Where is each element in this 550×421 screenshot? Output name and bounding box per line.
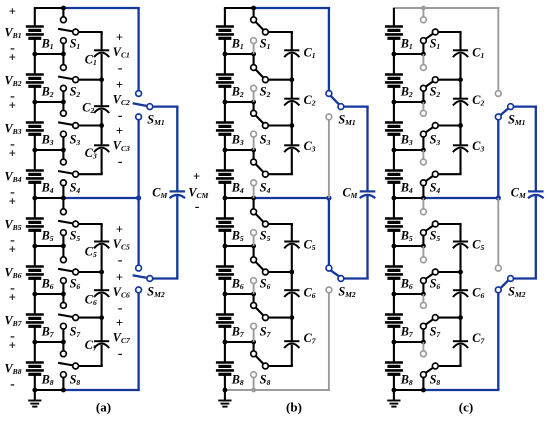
svg-text:B2: B2 <box>41 85 54 100</box>
svg-text:CM: CM <box>511 186 526 201</box>
junction at C junction 7 (c) <box>458 315 463 320</box>
switch S6 (a) <box>58 246 80 294</box>
svg-text:C1: C1 <box>304 46 316 61</box>
wire: top rail (c) <box>393 6 500 11</box>
svg-text:+: + <box>116 78 123 92</box>
wire: S7 pole to capacitor column (c) <box>438 317 462 319</box>
switch S2 (c) <box>421 54 441 102</box>
svg-text:S3: S3 <box>430 133 441 148</box>
battery B2 (c) <box>385 54 413 102</box>
battery B2 (a) <box>26 54 54 102</box>
svg-text:CM: CM <box>152 186 167 201</box>
switch S5 (c) <box>421 198 441 246</box>
svg-text:S5: S5 <box>70 229 81 244</box>
svg-text:B4: B4 <box>400 181 413 196</box>
node 2 wire (b) <box>223 100 257 105</box>
svg-text:+: + <box>9 4 16 18</box>
wire: S6 pole to capacitor column (b) <box>268 271 293 273</box>
junction at C junction 6 (b) <box>289 270 294 275</box>
wire: S_M2 pole to C_M (b) <box>343 196 368 279</box>
battery B8 (c) <box>385 342 413 390</box>
svg-text:C6: C6 <box>304 286 316 301</box>
battery B7 (c) <box>385 294 414 342</box>
svg-text:C3: C3 <box>85 146 97 161</box>
svg-text:S8: S8 <box>430 373 441 388</box>
svg-text:C2: C2 <box>82 101 94 116</box>
wire: S3 pole to capacitor column (c) <box>438 124 462 126</box>
svg-text:SM2: SM2 <box>147 285 165 300</box>
wire: mid node rail (a) <box>35 195 141 200</box>
label V_C3 with polarity (a) <box>113 124 130 170</box>
wire: S_M2 pole to C_M (a) <box>152 196 178 279</box>
node 7 wire (a) <box>32 340 65 345</box>
ground (b) <box>218 390 231 407</box>
switch S_M2 (c) <box>495 198 525 390</box>
label V_B7 with polarity (a) <box>5 290 23 344</box>
ground (c) <box>387 390 400 407</box>
svg-text:+: + <box>9 146 16 160</box>
wire: S8 pole to capacitor column (b) <box>268 365 293 367</box>
node 3 wire (b) <box>223 148 257 153</box>
switch S1 (c) <box>421 8 441 54</box>
node 1 wire (b) <box>223 52 257 57</box>
svg-text:(a): (a) <box>96 400 111 415</box>
node 6 wire (b) <box>223 292 257 297</box>
junction at C junction 2 (b) <box>289 77 294 82</box>
switch S2 (a) <box>58 54 80 102</box>
node 5 wire (c) <box>392 244 426 249</box>
svg-text:SM1: SM1 <box>338 113 356 128</box>
battery B6 (a) <box>26 246 54 294</box>
node 4 wire (b) <box>223 196 228 201</box>
capacitor C_M (c) <box>511 186 544 201</box>
svg-text:S6: S6 <box>260 277 271 292</box>
svg-text:C2: C2 <box>472 93 484 108</box>
wire: S4 pole to capacitor column (c) <box>438 173 462 175</box>
svg-text:+: + <box>116 316 123 330</box>
wire: bottom rail (c) <box>393 388 500 393</box>
svg-text:C2: C2 <box>304 93 316 108</box>
wire: capacitor column corners (b) <box>291 32 293 366</box>
switch S3 (b) <box>251 102 271 150</box>
junction at C junction 7 (a) <box>99 315 104 320</box>
switch S5 (a) <box>58 198 80 246</box>
battery B4 (c) <box>385 150 413 198</box>
svg-text:S2: S2 <box>70 85 81 100</box>
wire: top rail (a) <box>34 6 140 11</box>
wire: S1 pole to capacitor column (b) <box>268 31 293 33</box>
svg-text:C7: C7 <box>304 331 317 346</box>
label V_B5 with polarity (a) <box>5 194 22 248</box>
wire: S6 pole to capacitor column (c) <box>438 271 462 273</box>
wire: capacitor column corners (a) <box>101 32 103 366</box>
svg-text:S8: S8 <box>70 373 81 388</box>
switch S_M2 (a) <box>133 198 165 390</box>
switch S1 (b) <box>251 8 271 54</box>
svg-text:-: - <box>10 377 15 392</box>
switch S6 (b) <box>251 246 271 294</box>
svg-text:+: + <box>9 194 16 208</box>
svg-text:B3: B3 <box>41 133 54 148</box>
node 7 wire (b) <box>223 340 257 345</box>
svg-text:-: - <box>118 61 123 76</box>
wire: mid node rail (c) <box>394 195 501 200</box>
battery B1 (b) <box>216 8 244 54</box>
battery B5 (a) <box>26 198 54 246</box>
switch S_M1 (a) <box>133 8 165 198</box>
switch S8 (a) <box>58 342 80 390</box>
battery B3 (a) <box>26 102 54 150</box>
svg-text:B1: B1 <box>41 37 54 52</box>
svg-text:B6: B6 <box>41 277 54 292</box>
svg-text:+: + <box>9 242 16 256</box>
junction at C junction 2 (a) <box>99 77 104 82</box>
battery B6 (b) <box>216 246 244 294</box>
capacitor C1 (c) <box>453 32 485 80</box>
node 3 wire (c) <box>392 148 426 153</box>
svg-text:S1: S1 <box>70 37 81 52</box>
battery B7 (b) <box>216 294 245 342</box>
node 5 wire (b) <box>223 244 257 249</box>
battery B2 (b) <box>216 54 244 102</box>
switch S8 (c) <box>421 342 441 390</box>
junction at C junction 6 (c) <box>458 270 463 275</box>
switch S4 (b) <box>251 150 271 198</box>
svg-text:C5: C5 <box>472 238 484 253</box>
svg-text:S1: S1 <box>430 37 441 52</box>
label V_C7 with polarity (a) <box>113 316 131 362</box>
svg-text:B5: B5 <box>400 229 413 244</box>
capacitor C2 (c) <box>453 80 485 126</box>
switch S7 (a) <box>58 294 81 342</box>
capacitor C5 (b) <box>284 224 316 272</box>
label V_C5 with polarity (a) <box>113 222 130 268</box>
svg-text:SM1: SM1 <box>147 113 165 128</box>
switch S7 (c) <box>421 294 442 342</box>
switch S1 (a) <box>58 8 80 54</box>
svg-text:B7: B7 <box>400 325 414 340</box>
label V_B2 with polarity (a) <box>5 50 22 104</box>
svg-text:B8: B8 <box>400 373 413 388</box>
wire: S_M2 pole to C_M (c) <box>513 196 537 279</box>
wire: bottom rail (a) <box>34 388 140 393</box>
node 4 wire (c) <box>392 196 397 201</box>
svg-text:S3: S3 <box>260 133 271 148</box>
svg-text:VB1: VB1 <box>5 26 22 41</box>
label V_B1 with polarity (a) <box>5 4 22 56</box>
svg-text:S8: S8 <box>260 373 271 388</box>
battery B4 (a) <box>26 150 54 198</box>
capacitor C7 (a) <box>85 318 109 366</box>
svg-text:S5: S5 <box>260 229 271 244</box>
switch S4 (c) <box>421 150 441 198</box>
node 3 wire (a) <box>32 148 65 153</box>
wire: S7 pole to capacitor column (a) <box>78 317 103 319</box>
wire: S7 pole to capacitor column (b) <box>268 317 293 319</box>
label V_CM with polarity (a) <box>188 170 208 215</box>
svg-text:S4: S4 <box>430 181 441 196</box>
battery B3 (c) <box>385 102 413 150</box>
svg-text:C1: C1 <box>472 46 484 61</box>
wire: top rail (b) <box>224 6 330 11</box>
svg-text:+: + <box>9 98 16 112</box>
svg-text:C3: C3 <box>472 139 484 154</box>
switch S4 (a) <box>58 150 80 198</box>
svg-text:+: + <box>116 270 123 284</box>
node 1 wire (c) <box>392 52 426 57</box>
svg-text:S6: S6 <box>70 277 81 292</box>
svg-text:SM2: SM2 <box>338 285 356 300</box>
capacitor C_M (b) <box>343 186 376 201</box>
svg-text:-: - <box>118 109 123 124</box>
capacitor C3 (c) <box>453 126 485 175</box>
wire: S5 pole to capacitor column (b) <box>268 223 293 225</box>
svg-text:+: + <box>116 222 123 236</box>
svg-text:B3: B3 <box>400 133 413 148</box>
node 1 wire (a) <box>32 52 65 57</box>
capacitor C6 (b) <box>284 272 316 318</box>
wire: mid node rail (b) <box>225 195 332 200</box>
label V_B3 with polarity (a) <box>5 98 22 152</box>
svg-text:S3: S3 <box>70 133 81 148</box>
wire: S1 pole to capacitor column (a) <box>78 31 103 33</box>
svg-text:C3: C3 <box>304 139 316 154</box>
node 6 wire (c) <box>392 292 426 297</box>
svg-text:B5: B5 <box>41 229 54 244</box>
bottom node dot (c) <box>392 388 397 393</box>
wire: S2 pole to capacitor column (c) <box>438 79 462 81</box>
capacitor C2 (a) <box>82 80 109 126</box>
svg-text:VB7: VB7 <box>5 314 23 329</box>
svg-text:-: - <box>118 347 123 362</box>
svg-text:B6: B6 <box>231 277 244 292</box>
svg-text:S7: S7 <box>430 325 442 340</box>
svg-text:VB8: VB8 <box>5 362 22 377</box>
svg-text:B7: B7 <box>41 325 55 340</box>
svg-text:S5: S5 <box>430 229 441 244</box>
svg-text:C5: C5 <box>304 238 316 253</box>
capacitor C3 (b) <box>284 126 316 175</box>
switch S8 (b) <box>251 342 271 390</box>
wire: S6 pole to capacitor column (a) <box>78 271 103 273</box>
capacitor C_M (a) <box>152 186 185 201</box>
capacitor C5 (a) <box>85 224 109 272</box>
capacitor C7 (b) <box>284 318 317 366</box>
svg-text:+: + <box>9 338 16 352</box>
wire: S3 pole to capacitor column (b) <box>268 124 293 126</box>
switch S3 (a) <box>58 102 80 150</box>
node 7 wire (c) <box>392 340 426 345</box>
svg-text:VC6: VC6 <box>113 285 130 300</box>
svg-text:VC7: VC7 <box>113 331 131 346</box>
label V_B6 with polarity (a) <box>5 242 22 295</box>
svg-text:CM: CM <box>343 186 358 201</box>
svg-text:+: + <box>193 170 200 184</box>
wire: S4 pole to capacitor column (b) <box>268 173 293 175</box>
junction at C junction 7 (b) <box>289 315 294 320</box>
junction at C junction 2 (c) <box>458 77 463 82</box>
bottom node dot (b) <box>223 388 228 393</box>
capacitor C6 (c) <box>453 272 485 318</box>
svg-text:VC1: VC1 <box>113 45 130 60</box>
svg-text:B5: B5 <box>231 229 244 244</box>
svg-text:S7: S7 <box>70 325 82 340</box>
battery B8 (b) <box>216 342 244 390</box>
node 6 wire (a) <box>32 292 65 297</box>
switch S6 (c) <box>421 246 441 294</box>
svg-text:S7: S7 <box>260 325 272 340</box>
svg-text:VB5: VB5 <box>5 218 22 233</box>
switch S2 (b) <box>251 54 271 102</box>
label V_C1 with polarity (a) <box>113 30 130 76</box>
svg-text:S4: S4 <box>260 181 271 196</box>
wire: S4 pole to capacitor column (a) <box>78 173 103 175</box>
wire: S2 pole to capacitor column (a) <box>78 79 103 81</box>
switch S7 (b) <box>251 294 272 342</box>
svg-text:S1: S1 <box>260 37 271 52</box>
svg-text:VB3: VB3 <box>5 122 22 137</box>
svg-text:(c): (c) <box>459 400 473 415</box>
svg-text:VB6: VB6 <box>5 266 22 281</box>
svg-text:B4: B4 <box>41 181 54 196</box>
svg-text:+: + <box>116 30 123 44</box>
switch S3 (c) <box>421 102 441 150</box>
node 2 wire (c) <box>392 100 426 105</box>
junction at C junction 3 (b) <box>289 123 294 128</box>
svg-text:B2: B2 <box>400 85 413 100</box>
junction at C junction 3 (c) <box>458 123 463 128</box>
svg-text:B7: B7 <box>231 325 245 340</box>
node 4 wire (a) <box>32 196 37 201</box>
wire: bottom rail (b) <box>224 388 330 393</box>
battery B5 (b) <box>216 198 244 246</box>
svg-text:+: + <box>116 124 123 138</box>
capacitor C1 (a) <box>85 32 109 80</box>
label V_B4 with polarity (a) <box>5 146 22 200</box>
wire: S_M1 pole to C_M (a) <box>152 107 178 192</box>
svg-text:+: + <box>9 290 16 304</box>
ground (a) <box>28 390 41 407</box>
wire: S_M1 pole to C_M (c) <box>513 107 537 192</box>
capacitor C1 (b) <box>284 32 316 80</box>
svg-text:S2: S2 <box>260 85 271 100</box>
capacitor C3 (a) <box>85 126 109 175</box>
svg-text:SM1: SM1 <box>508 113 526 128</box>
battery B3 (b) <box>216 102 244 150</box>
wire: capacitor column corners (c) <box>459 32 461 366</box>
wire: S8 pole to capacitor column (a) <box>78 365 103 367</box>
battery B6 (c) <box>385 246 413 294</box>
capacitor C6 (a) <box>85 272 109 318</box>
svg-text:C7: C7 <box>472 331 485 346</box>
switch S_M2 (b) <box>326 198 356 390</box>
wire: S3 pole to capacitor column (a) <box>78 124 103 126</box>
node 5 wire (a) <box>32 244 65 249</box>
label V_C2 with polarity (a) <box>113 78 130 124</box>
svg-text:B8: B8 <box>41 373 54 388</box>
wire: S5 pole to capacitor column (c) <box>438 223 462 225</box>
svg-text:S6: S6 <box>430 277 441 292</box>
battery B7 (a) <box>26 294 55 342</box>
svg-text:VC5: VC5 <box>113 237 130 252</box>
svg-text:B2: B2 <box>231 85 244 100</box>
wire: S5 pole to capacitor column (a) <box>78 223 103 225</box>
svg-text:B4: B4 <box>231 181 244 196</box>
capacitor C7 (c) <box>453 318 486 366</box>
svg-text:B6: B6 <box>400 277 413 292</box>
svg-text:-: - <box>118 301 123 316</box>
svg-text:C6: C6 <box>472 286 484 301</box>
wire: S1 pole to capacitor column (c) <box>438 31 462 33</box>
switch S_M1 (b) <box>326 8 356 198</box>
svg-text:B1: B1 <box>231 37 244 52</box>
svg-text:VCM: VCM <box>188 186 208 201</box>
label V_C6 with polarity (a) <box>113 270 130 316</box>
svg-text:S2: S2 <box>430 85 441 100</box>
svg-text:SM2: SM2 <box>508 285 526 300</box>
svg-text:VB4: VB4 <box>5 170 22 185</box>
junction at C junction 6 (a) <box>99 270 104 275</box>
svg-text:B8: B8 <box>231 373 244 388</box>
capacitor C5 (c) <box>453 224 485 272</box>
svg-text:VB2: VB2 <box>5 74 22 89</box>
switch S5 (b) <box>251 198 271 246</box>
wire: S2 pole to capacitor column (b) <box>268 79 293 81</box>
switch S_M1 (c) <box>495 8 525 198</box>
svg-text:VC2: VC2 <box>113 93 130 108</box>
svg-text:S4: S4 <box>70 181 81 196</box>
bottom node dot (a) <box>32 388 37 393</box>
svg-text:-: - <box>118 253 123 268</box>
node 2 wire (a) <box>32 100 65 105</box>
battery B1 (a) <box>26 8 54 54</box>
svg-text:B3: B3 <box>231 133 244 148</box>
battery B8 (a) <box>26 342 54 390</box>
svg-text:VC3: VC3 <box>113 139 130 154</box>
junction at C junction 3 (a) <box>99 123 104 128</box>
svg-text:(b): (b) <box>286 400 302 415</box>
battery B4 (b) <box>216 150 244 198</box>
svg-text:B1: B1 <box>400 37 413 52</box>
svg-text:-: - <box>195 200 200 215</box>
battery B5 (c) <box>385 198 413 246</box>
wire: S8 pole to capacitor column (c) <box>438 365 462 367</box>
svg-text:-: - <box>118 155 123 170</box>
svg-text:+: + <box>9 50 16 64</box>
capacitor C2 (b) <box>284 80 316 126</box>
label V_B8 with polarity (a) <box>5 338 22 392</box>
wire: S_M1 pole to C_M (b) <box>343 107 368 192</box>
battery B1 (c) <box>385 8 413 54</box>
